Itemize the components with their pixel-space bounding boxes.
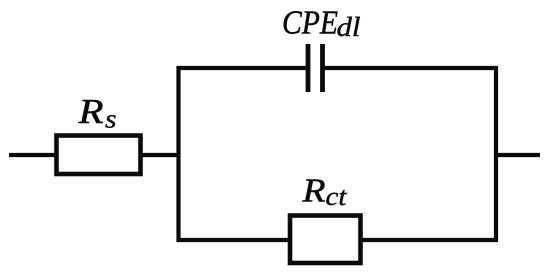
svg-text:R: R <box>301 173 325 210</box>
wire bottom-left to R_ct <box>177 238 290 242</box>
right lead wire <box>496 153 540 157</box>
capacitor CPE_dl left plate <box>306 44 311 92</box>
wire capacitor to top-right <box>325 66 499 70</box>
wire R_ct to bottom-right <box>361 238 498 242</box>
resistor R_s <box>57 136 141 175</box>
capacitor CPE_dl right plate <box>320 44 325 92</box>
left lead wire <box>9 153 56 157</box>
label R_ct <box>301 173 347 212</box>
resistor R_ct <box>290 216 361 264</box>
node: left vertical branch wire <box>176 66 180 242</box>
svg-text:ct: ct <box>326 181 348 211</box>
svg-text:R: R <box>77 93 103 131</box>
label R_s <box>77 93 116 134</box>
svg-text:CPE: CPE <box>282 5 338 42</box>
wire resistor to parallel node <box>140 153 180 157</box>
svg-text:s: s <box>105 104 117 134</box>
wire top-left to capacitor <box>177 66 307 70</box>
label CPE_dl <box>282 5 361 43</box>
node: right vertical branch wire <box>494 66 498 242</box>
svg-text:dl: dl <box>337 12 361 42</box>
